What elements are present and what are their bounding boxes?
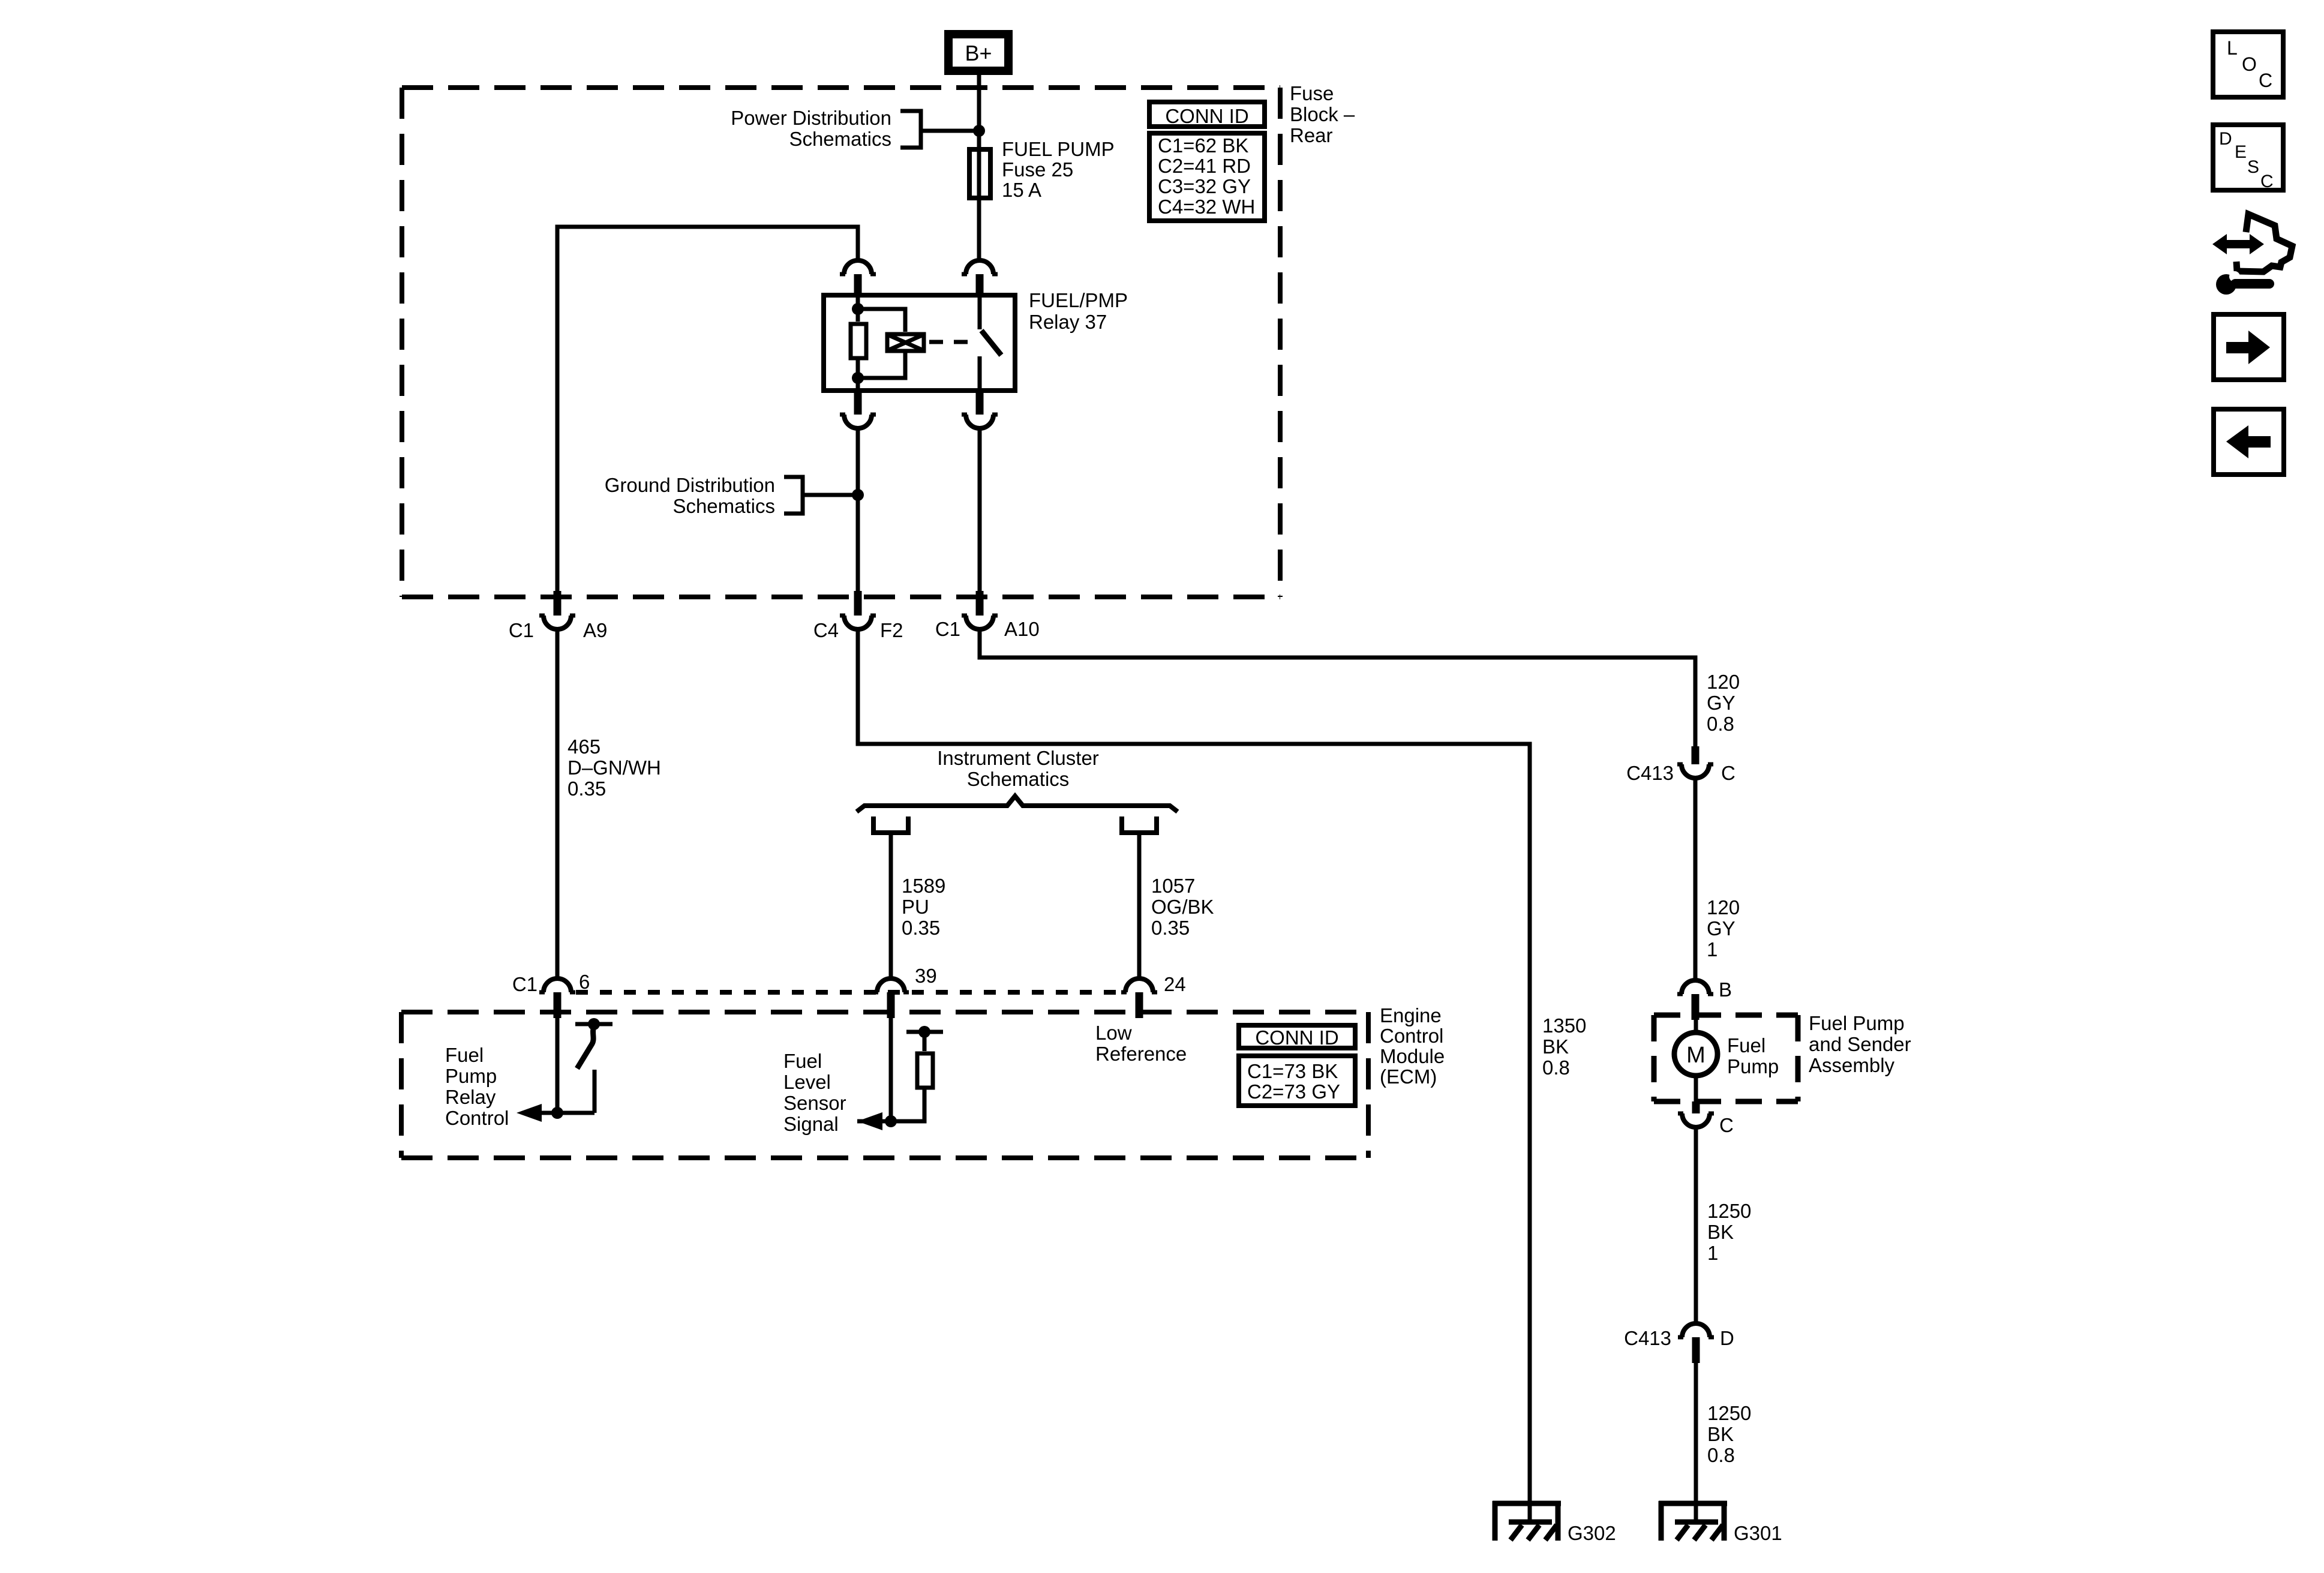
svg-text:S: S	[2247, 157, 2259, 177]
instrument cluster brace	[857, 796, 1178, 812]
svg-text:BK: BK	[1707, 1423, 1734, 1445]
svg-text:B+: B+	[965, 41, 992, 65]
svg-text:OG/BK: OG/BK	[1151, 896, 1214, 918]
svg-text:1: 1	[1707, 1242, 1718, 1264]
svg-text:Module: Module	[1380, 1045, 1445, 1067]
svg-text:C2=73 GY: C2=73 GY	[1247, 1080, 1340, 1103]
svg-text:BK: BK	[1707, 1221, 1734, 1243]
svg-text:0.8: 0.8	[1542, 1056, 1570, 1079]
svg-text:Relay: Relay	[445, 1086, 496, 1108]
ECM dashed outline: Engine Control Module	[401, 1010, 1368, 1014]
wire 1250 BK 0.8 : C413 D to ground G301	[1694, 1363, 1698, 1522]
svg-text:and Sender: and Sender	[1809, 1033, 1911, 1055]
svg-text:Reference: Reference	[1095, 1043, 1187, 1065]
svg-text:C413: C413	[1626, 762, 1674, 784]
relay actuation dashed link	[929, 340, 975, 344]
wire 1250 BK 1 : pump to C413 D	[1694, 1127, 1698, 1323]
svg-text:C: C	[1719, 1114, 1734, 1136]
svg-text:L: L	[2227, 37, 2238, 59]
ECM connector interface dotted line	[576, 990, 1121, 995]
connector C413 pin D	[1682, 1323, 1710, 1337]
svg-text:D: D	[1720, 1327, 1734, 1349]
svg-text:E: E	[2235, 142, 2247, 162]
relay coil loop and solenoid	[858, 309, 905, 378]
svg-text:0.35: 0.35	[1151, 917, 1190, 939]
svg-text:G302: G302	[1568, 1522, 1616, 1544]
svg-text:Fuse 25: Fuse 25	[1002, 158, 1073, 181]
svg-text:O: O	[2242, 53, 2257, 75]
svg-text:Relay 37: Relay 37	[1029, 311, 1107, 333]
icon swap/tools	[2212, 234, 2264, 254]
svg-text:M: M	[1686, 1043, 1706, 1068]
fuel pump and sender assembly dashed outline	[1654, 1013, 1798, 1018]
svg-text:PU: PU	[902, 896, 929, 918]
connector C4 F2	[854, 591, 862, 616]
connector C1 A10	[976, 591, 984, 616]
svg-text:C1: C1	[935, 618, 960, 640]
svg-text:0.8: 0.8	[1707, 1444, 1735, 1466]
svg-text:Assembly: Assembly	[1809, 1054, 1895, 1076]
svg-text:39: 39	[915, 965, 937, 987]
svg-text:Control: Control	[1380, 1025, 1443, 1047]
svg-text:Signal: Signal	[783, 1113, 839, 1135]
svg-text:Fuel: Fuel	[445, 1044, 484, 1066]
fuel pump motor M	[1694, 1020, 1698, 1101]
ECM fuel pump relay control driver	[556, 1018, 560, 1113]
ground distribution schematics reference bracket	[784, 477, 858, 514]
svg-text:Low: Low	[1095, 1022, 1132, 1044]
svg-text:Fuel: Fuel	[783, 1050, 822, 1072]
svg-text:Engine: Engine	[1380, 1004, 1442, 1026]
icon next arrow box	[2214, 314, 2284, 380]
CONN ID table ECM	[1239, 1025, 1355, 1048]
svg-text:120: 120	[1707, 896, 1740, 918]
svg-text:A10: A10	[1004, 618, 1040, 640]
wire relay coil ground to C4 F2	[856, 428, 860, 591]
svg-text:Pump: Pump	[1727, 1055, 1779, 1077]
svg-text:1: 1	[1707, 938, 1718, 960]
ECM fuel level sensor signal input	[889, 1018, 893, 1121]
svg-text:FUEL PUMP: FUEL PUMP	[1002, 138, 1115, 160]
svg-text:A9: A9	[583, 619, 607, 641]
svg-text:GY: GY	[1707, 917, 1736, 939]
connector pin 39	[877, 978, 905, 992]
svg-text:F2: F2	[880, 619, 903, 641]
svg-text:GY: GY	[1707, 692, 1736, 714]
icon DESC box	[2213, 125, 2283, 190]
svg-text:(ECM): (ECM)	[1380, 1065, 1437, 1088]
ground G302	[1493, 1501, 1561, 1506]
svg-text:C413: C413	[1624, 1327, 1671, 1349]
relay pin connector top right	[976, 274, 984, 295]
svg-text:C: C	[1721, 762, 1736, 784]
icon back arrow box	[2214, 409, 2284, 475]
wire relay switch output to C1 A10	[978, 428, 982, 591]
battery feed terminal B+	[948, 34, 1008, 71]
svg-text:Schematics: Schematics	[672, 495, 775, 517]
wire relay coil feed to C1 A9	[557, 227, 858, 591]
svg-text:C4: C4	[813, 619, 839, 641]
svg-text:G301: G301	[1734, 1522, 1782, 1544]
svg-text:24: 24	[1164, 973, 1186, 995]
relay pin connector bottom left	[854, 393, 862, 415]
cluster connector cavity left	[873, 816, 908, 833]
wire 120 GY 1 : C413 to fuel pump B	[1694, 778, 1698, 980]
relay FUEL/PMP Relay 37	[824, 295, 1015, 391]
junction node power tap	[973, 125, 985, 137]
connector C1 pin 6	[544, 978, 571, 992]
svg-text:Instrument Cluster: Instrument Cluster	[937, 747, 1099, 769]
svg-text:6: 6	[579, 971, 590, 993]
svg-text:C1: C1	[509, 619, 534, 641]
svg-text:C1=73 BK: C1=73 BK	[1247, 1060, 1338, 1082]
svg-text:C2=41 RD: C2=41 RD	[1158, 155, 1251, 177]
icon LOC box	[2213, 32, 2283, 97]
svg-text:1250: 1250	[1707, 1402, 1751, 1424]
fuse FUEL PUMP Fuse 25 15A	[969, 149, 990, 198]
svg-text:1250: 1250	[1707, 1200, 1751, 1222]
svg-text:C1=62 BK: C1=62 BK	[1158, 134, 1248, 157]
svg-text:D: D	[2219, 129, 2232, 149]
svg-text:Ground Distribution: Ground Distribution	[605, 474, 775, 496]
fuse block dashed outline: Fuse Block - Rear	[402, 85, 1280, 90]
svg-text:15 A: 15 A	[1002, 179, 1041, 201]
cluster connector cavity right	[1122, 816, 1157, 833]
svg-text:C1: C1	[512, 973, 538, 995]
wire 1589 PU 0.35 : cluster to ECM pin 39	[889, 833, 893, 978]
svg-text:Fuse: Fuse	[1290, 82, 1334, 104]
connector pin B fuel pump	[1682, 980, 1709, 994]
svg-text:Power Distribution: Power Distribution	[731, 107, 891, 129]
relay coil resistor	[856, 293, 860, 393]
svg-text:CONN ID: CONN ID	[1255, 1026, 1338, 1049]
svg-text:CONN ID: CONN ID	[1165, 105, 1248, 127]
power distribution schematics reference bracket	[900, 111, 979, 148]
svg-text:1350: 1350	[1542, 1014, 1586, 1037]
svg-text:Fuel Pump: Fuel Pump	[1809, 1012, 1905, 1034]
svg-text:Sensor: Sensor	[783, 1092, 846, 1114]
connector C413 pin C	[1692, 746, 1700, 764]
relay pin connector bottom right	[976, 393, 984, 415]
svg-text:Schematics: Schematics	[967, 768, 1070, 790]
svg-text:Block –: Block –	[1290, 103, 1355, 125]
svg-text:BK: BK	[1542, 1035, 1569, 1058]
wire 1350 BK 0.8 : F2 to ground G302	[858, 629, 1530, 1522]
wire 465 D-GN/WH 0.35 : A9 to ECM pin 6	[556, 629, 560, 978]
svg-text:B: B	[1719, 978, 1732, 1001]
connector pin C fuel pump	[1692, 1101, 1700, 1113]
svg-text:C: C	[2259, 70, 2272, 91]
svg-text:465: 465	[568, 736, 600, 758]
svg-text:C: C	[2260, 172, 2274, 191]
svg-text:Rear: Rear	[1290, 124, 1333, 146]
svg-text:Fuel: Fuel	[1727, 1034, 1765, 1056]
connector C1 A9	[554, 591, 562, 616]
wire 120 GY 0.8 : A10 to C413 C	[980, 629, 1695, 746]
wire 1057 OG/BK 0.35 : cluster to ECM pin 24	[1137, 833, 1142, 978]
relay switch	[978, 293, 982, 329]
svg-text:1589: 1589	[902, 875, 945, 897]
svg-text:C4=32 WH: C4=32 WH	[1158, 196, 1255, 218]
svg-text:C3=32 GY: C3=32 GY	[1158, 175, 1251, 197]
svg-text:FUEL/PMP: FUEL/PMP	[1029, 289, 1128, 311]
svg-text:Pump: Pump	[445, 1065, 497, 1087]
svg-text:0.8: 0.8	[1707, 713, 1734, 735]
svg-text:Schematics: Schematics	[789, 128, 891, 150]
svg-text:120: 120	[1707, 671, 1740, 693]
CONN ID table fuse block	[1149, 102, 1265, 127]
relay pin connector top left	[854, 274, 862, 295]
wire B+ to fuse and relay switch	[977, 75, 981, 260]
svg-text:1057: 1057	[1151, 875, 1195, 897]
ground G301	[1659, 1501, 1727, 1506]
svg-text:Level: Level	[783, 1071, 831, 1093]
svg-text:D–GN/WH: D–GN/WH	[568, 757, 661, 779]
svg-text:Control: Control	[445, 1107, 509, 1129]
connector pin 24	[1125, 978, 1153, 992]
svg-text:0.35: 0.35	[902, 917, 940, 939]
solenoid coil box with X	[887, 334, 924, 351]
svg-text:0.35: 0.35	[568, 778, 606, 800]
